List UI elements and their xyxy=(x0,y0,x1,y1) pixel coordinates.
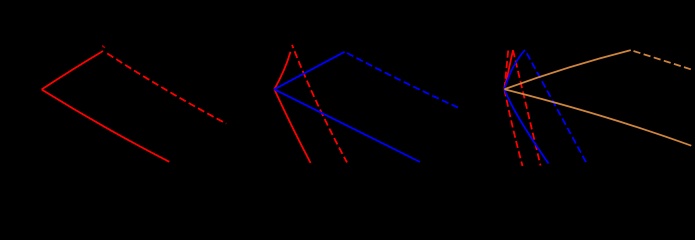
faint dash blip above apex panel1 xyxy=(102,45,105,47)
ray descent solid red panel1 xyxy=(42,90,170,162)
ray ascent steep dashed red panel3 xyxy=(504,51,508,90)
ray dashed red descent from vertex panel3 xyxy=(504,89,522,166)
ray dashed blue panel3 xyxy=(527,53,587,163)
ray ascent solid red panel3 xyxy=(504,50,513,89)
ray ascent solid red panel2 xyxy=(274,52,290,90)
ray descent solid blue panel2 xyxy=(274,89,420,162)
figure: three relativistic light-path panels on black xyxy=(0,0,695,187)
ray ascent solid blue panel2 xyxy=(274,52,344,90)
ray dashed tan panel3 xyxy=(634,51,694,70)
ray ascent solid blue panel3 xyxy=(504,50,525,90)
ray ascent solid red panel1 xyxy=(42,51,103,90)
ray dashed red from apex panel3 xyxy=(513,50,541,165)
ray descent solid red panel2 xyxy=(274,89,310,163)
ray dashed red panel1 xyxy=(107,53,226,123)
ray descent solid blue panel3 xyxy=(504,89,548,163)
ray descent solid tan panel3 xyxy=(504,89,691,145)
ray dashed red panel2 xyxy=(292,45,347,163)
ray ascent solid tan panel3 xyxy=(504,50,630,89)
ray dashed blue panel2 xyxy=(347,53,458,108)
